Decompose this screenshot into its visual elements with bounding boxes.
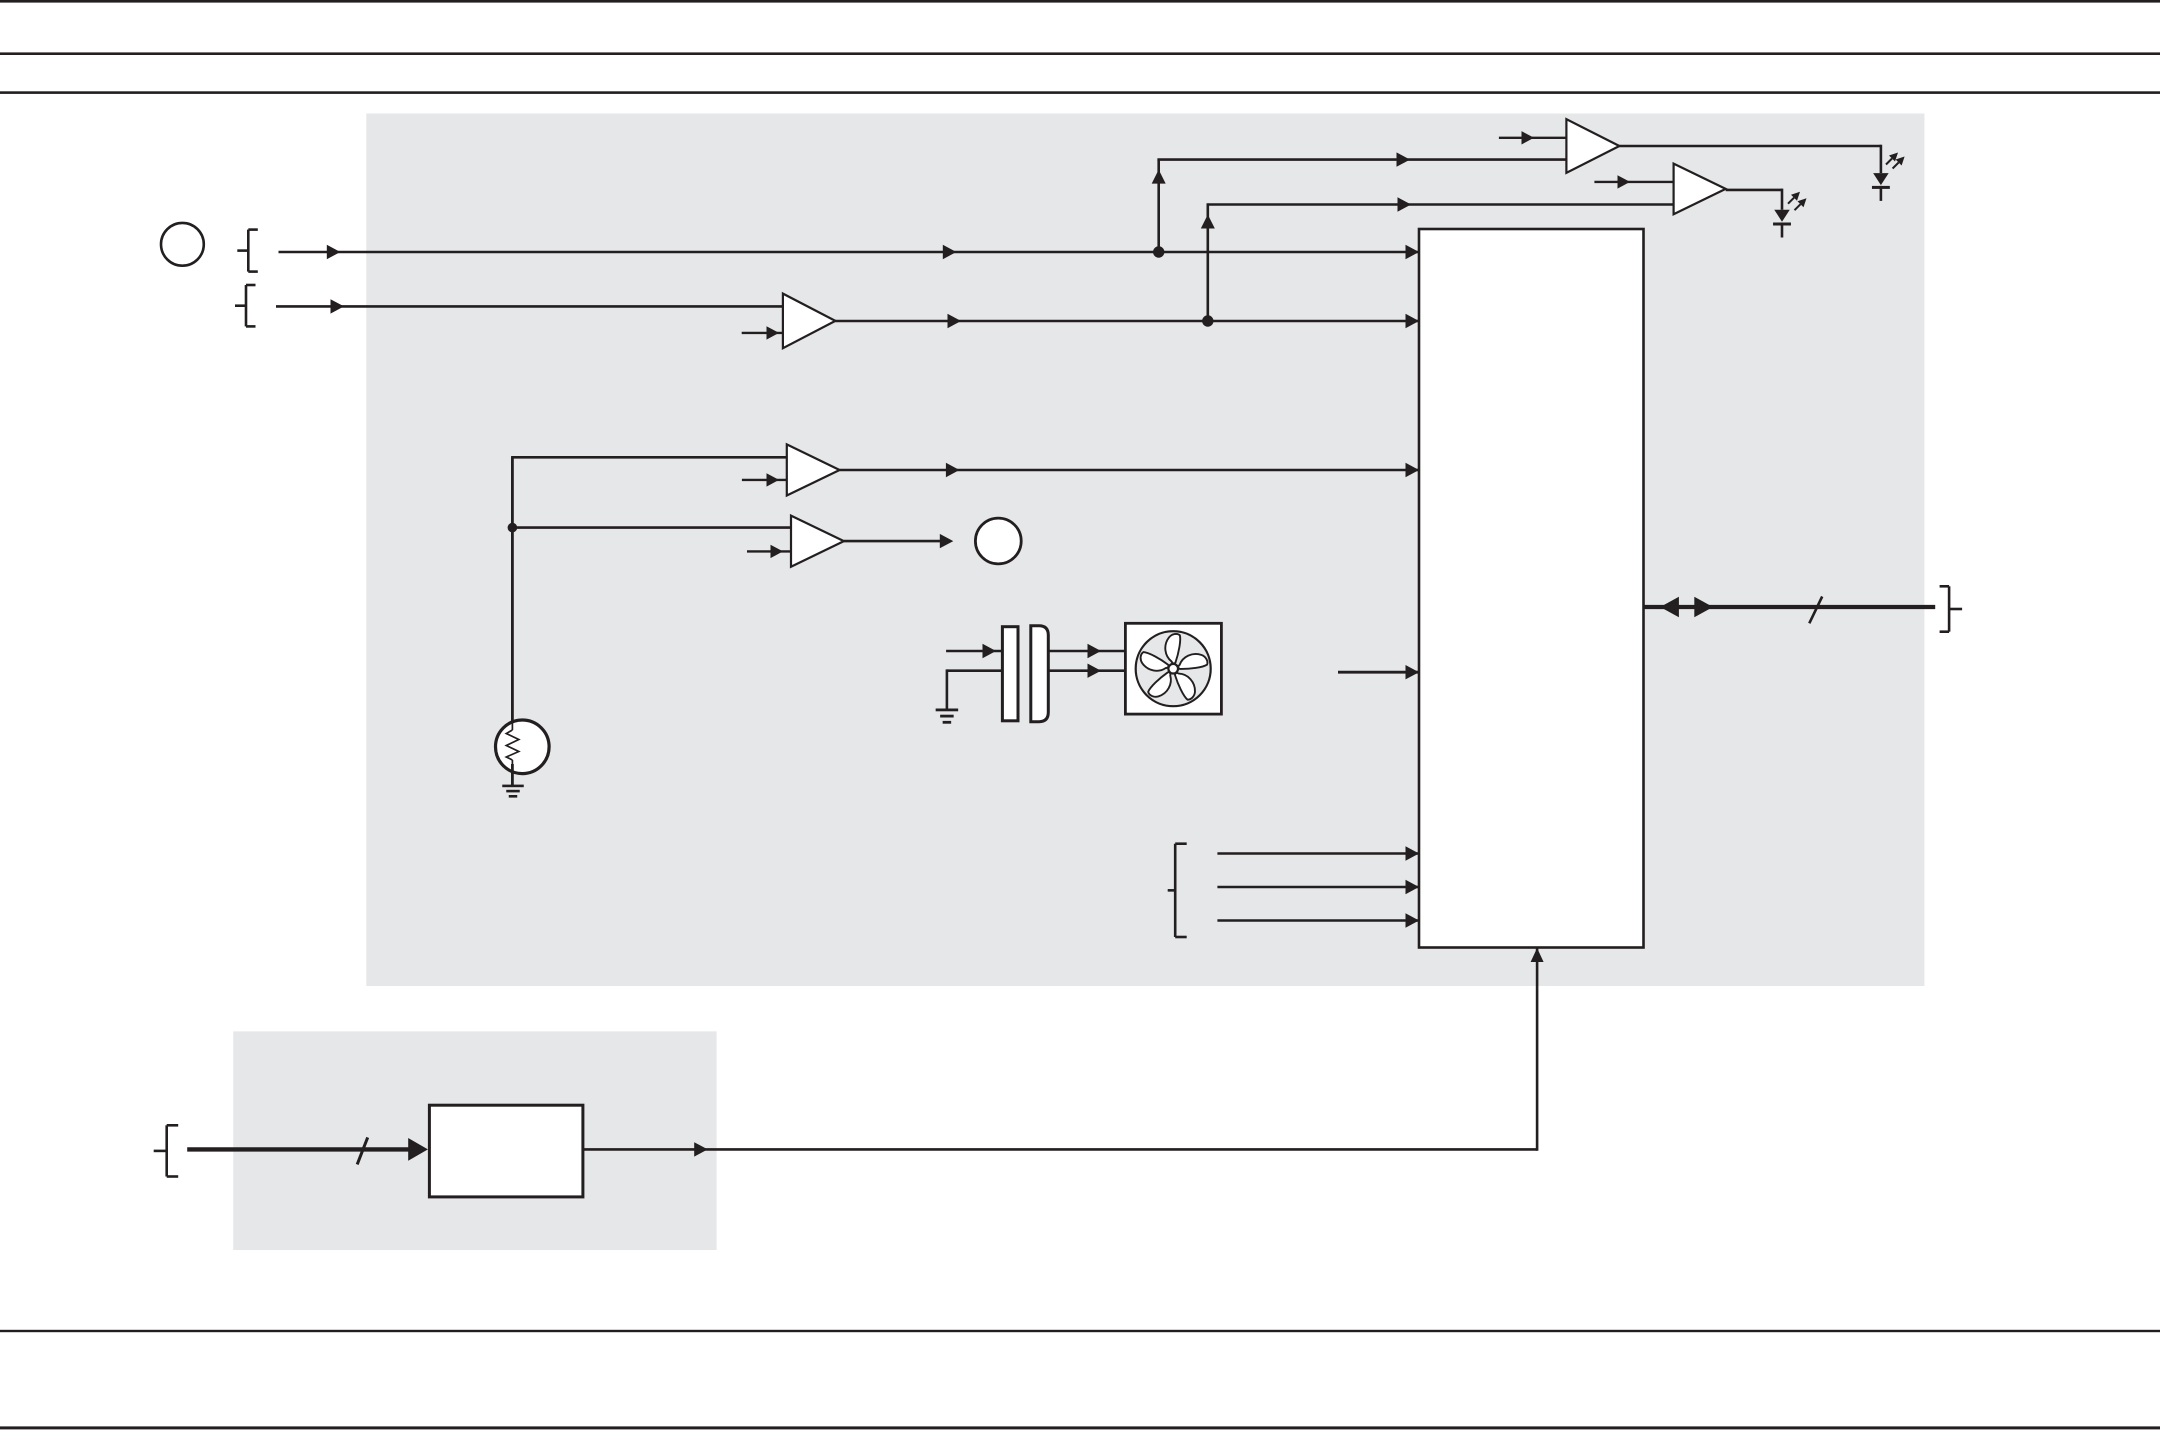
controller IC U6	[1419, 229, 1644, 948]
wire fan drive	[946, 644, 1002, 658]
bias stub arrow into U3	[1594, 175, 1673, 188]
buffer amplifier U1	[783, 294, 836, 349]
bias stub arrow into U1	[742, 326, 783, 339]
wire connector to fan (return)	[1048, 664, 1125, 678]
fan M1 rotor	[1136, 631, 1211, 706]
junction node C	[508, 523, 518, 533]
voltage regulator block U7	[429, 1105, 583, 1197]
wire address bit 0	[1217, 846, 1419, 860]
wire address bit 1	[1217, 880, 1419, 894]
thermistor RT1	[496, 720, 550, 786]
address pins bracket	[1168, 844, 1187, 937]
wire into buffer U4	[511, 456, 787, 459]
wire fan return	[947, 669, 1003, 709]
LED driver buffer U2	[1566, 119, 1619, 173]
bias stub arrow into U2	[1499, 131, 1567, 144]
wire top line B to LED buffer	[1207, 197, 1674, 211]
junction node A	[1153, 246, 1164, 257]
LED D1	[1872, 173, 1890, 201]
footer rule lower	[0, 1426, 2160, 1429]
wire U5 output	[844, 534, 953, 548]
wire address bit 2	[1217, 913, 1419, 927]
serial bus width slash	[1809, 597, 1822, 624]
wire input 2	[276, 299, 783, 313]
fan connector blade 2	[1031, 626, 1049, 722]
wire regulator output to controller	[583, 948, 1544, 1157]
wire U1 output to controller	[835, 314, 1419, 328]
connector pin bracket (input 1)	[237, 230, 257, 272]
buffer amplifier U5	[791, 516, 844, 567]
footer rule upper	[0, 1330, 2160, 1332]
wire connector to fan (drive)	[1048, 644, 1125, 658]
serial bus bidirectional wire	[1644, 605, 1936, 609]
junction node B	[1202, 315, 1213, 326]
wire power input (bus)	[187, 1138, 428, 1161]
bias stub arrow into U5	[747, 545, 791, 558]
main diagram gray panel	[366, 114, 1924, 987]
wire U4 output to controller	[840, 463, 1419, 477]
fan M1 frame	[1125, 623, 1221, 714]
ground (fan return)	[936, 709, 959, 724]
header rule bottom	[0, 91, 2160, 94]
wire U3 output to LED D2	[1726, 189, 1782, 210]
header rule top	[0, 0, 2160, 3]
remote temperature sensor circle	[161, 223, 204, 266]
power bus width slash	[357, 1137, 368, 1164]
bias stub arrow into U4	[742, 473, 787, 486]
wire into buffer U5	[512, 526, 791, 529]
wire tach input	[1338, 665, 1419, 679]
fan connector blade 1	[1002, 627, 1018, 721]
power input bracket	[154, 1125, 179, 1176]
analog output circle	[975, 518, 1021, 564]
LED D2	[1773, 210, 1791, 238]
power section gray panel	[233, 1031, 716, 1250]
wire U2 output to LED D1	[1619, 145, 1881, 173]
header rule middle	[0, 52, 2160, 55]
connector pin bracket (input 2)	[235, 285, 256, 326]
wire riser from node A	[1152, 160, 1166, 252]
LED D2 emission arrows	[1788, 192, 1807, 211]
wire thermistor net vertical	[511, 457, 514, 723]
serial bus bracket	[1940, 586, 1963, 631]
serial bus double arrowhead	[1660, 597, 1713, 617]
wire top line A to LED buffer	[1157, 152, 1566, 166]
wire input 1 to controller	[279, 245, 1420, 259]
ground (thermistor)	[502, 785, 524, 798]
wire riser from node B	[1201, 205, 1215, 322]
LED D1 emission arrows	[1886, 153, 1905, 169]
LED driver buffer U3	[1674, 164, 1726, 215]
buffer amplifier U4	[787, 444, 840, 495]
